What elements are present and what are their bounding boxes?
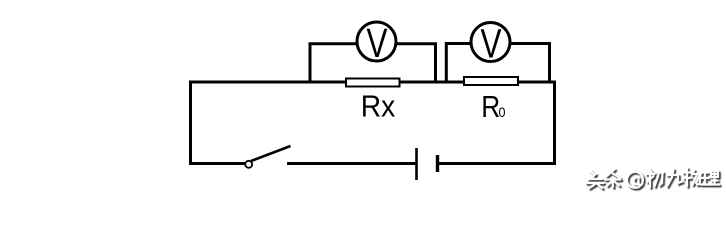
wire: bottom wire left of switch [189, 162, 245, 165]
svg-text:0: 0 [499, 104, 506, 120]
wire: bottom wire battery to right corner [437, 162, 556, 165]
battery positive plate (long) [415, 148, 418, 180]
resistor Rx [346, 79, 400, 87]
wire: main loop left edge [189, 81, 192, 166]
wire: top wire left segment [189, 81, 348, 84]
watermark shadow layer [588, 170, 721, 190]
wire: voltmeter V1 loop right [397, 44, 436, 82]
wire: voltmeter V2 loop left [446, 44, 471, 83]
wire: top wire right segment [517, 81, 556, 84]
resistor R0 [464, 77, 518, 85]
voltmeter V1 [357, 22, 396, 61]
voltmeter V2 [471, 23, 510, 62]
wire: voltmeter V1 loop left [310, 44, 357, 82]
wire: bottom wire switch to battery [287, 162, 417, 165]
wire: main loop right edge [553, 81, 556, 166]
svg-text:Rx: Rx [361, 90, 396, 124]
switch S1 lever [251, 146, 291, 161]
watermark white layer [586, 168, 719, 188]
wire: voltmeter V2 loop right [510, 44, 550, 83]
wire: top wire between Rx and R0 [398, 81, 465, 84]
svg-text:V: V [481, 21, 502, 67]
svg-text:R: R [481, 90, 500, 124]
switch S1 pivot [245, 161, 252, 168]
svg-text:V: V [367, 20, 388, 66]
battery negative plate (short) [436, 155, 439, 172]
